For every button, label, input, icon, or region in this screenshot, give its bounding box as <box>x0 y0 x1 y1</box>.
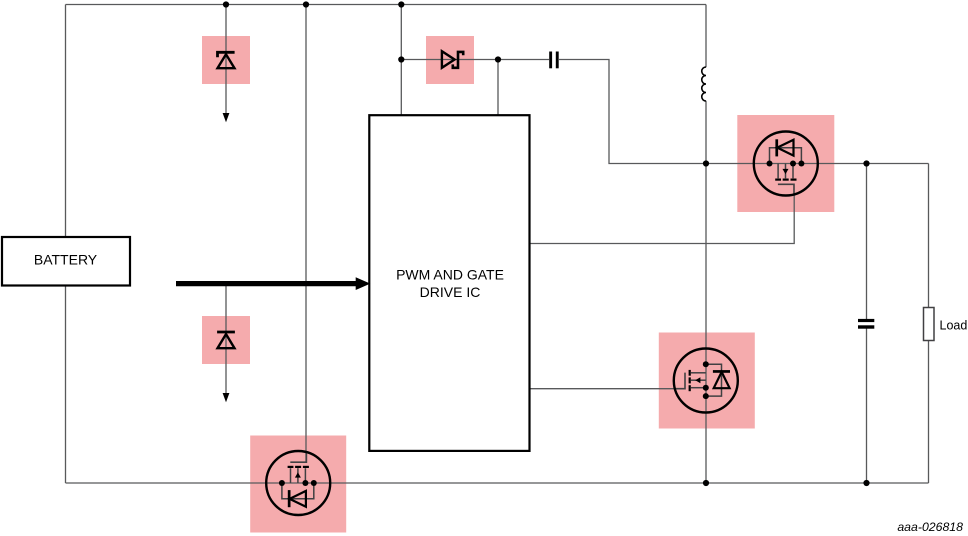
highlight box Z2 <box>202 316 250 364</box>
wire zener Z1 branch <box>225 5 227 115</box>
zener diode Z1 <box>218 52 235 68</box>
highlight box Z3 <box>426 36 474 84</box>
wire output capacitor branch <box>866 164 868 484</box>
highlight box Q3 reverse-battery <box>250 436 346 533</box>
wire battery positive <box>65 5 67 238</box>
wire zener Z2 branch <box>225 284 227 394</box>
thick input arrow <box>176 281 358 286</box>
wire bootstrap cap to switch node <box>559 60 929 164</box>
junction dot top rail Z1 <box>223 1 229 7</box>
wire gate Q1 from IC <box>530 195 795 244</box>
arrowhead Z1 branch <box>223 113 230 122</box>
svg-text:PWM AND GATE: PWM AND GATE <box>396 267 504 283</box>
highlight box Q2 low-side <box>659 333 755 429</box>
battery box <box>2 237 130 286</box>
svg-text:Load: Load <box>940 319 968 333</box>
junction dot ground cap <box>863 480 869 486</box>
capacitor output C2 <box>858 319 874 322</box>
wire bootstrap line left <box>401 59 549 61</box>
mosfet Q1 high-side <box>754 132 818 196</box>
zener diode Z3 horizontal <box>442 51 463 68</box>
wire bottom ground rail <box>66 482 929 484</box>
mosfet Q2 low-side <box>674 349 738 413</box>
svg-text:aaa-026818: aaa-026818 <box>897 520 963 534</box>
mosfet Q3 reverse-battery-protection <box>266 451 330 515</box>
diode Z2 <box>217 332 235 348</box>
arrowhead Z2 branch <box>223 393 230 402</box>
wire IC supply <box>400 5 402 116</box>
junction dot top rail IC supply <box>398 1 404 7</box>
wire battery negative <box>65 286 67 484</box>
junction dot switch node <box>703 160 709 166</box>
junction dot output node top <box>863 160 869 166</box>
junction dot bootstrap IC pin <box>495 56 501 62</box>
wire top rail <box>66 4 707 6</box>
IC box PWM and gate drive <box>369 115 529 451</box>
wire gate Q2 from IC <box>530 388 686 390</box>
svg-text:BATTERY: BATTERY <box>34 252 98 268</box>
load resistor <box>924 308 935 341</box>
junction dot ground phase <box>703 480 709 486</box>
wire IC boot pin stub <box>497 60 499 116</box>
capacitor bootstrap C1 <box>549 52 552 69</box>
junction dot bootstrap left <box>398 56 404 62</box>
svg-text:DRIVE IC: DRIVE IC <box>420 284 481 300</box>
inductor L1 <box>702 67 706 101</box>
wire gate line to Q3 <box>305 5 307 463</box>
junction dot top rail gate line <box>303 1 309 7</box>
highlight box Z1 <box>202 36 250 84</box>
highlight box Q1 high-side <box>737 115 834 212</box>
wire load branch <box>928 164 930 484</box>
wire phase node vertical <box>705 5 707 484</box>
